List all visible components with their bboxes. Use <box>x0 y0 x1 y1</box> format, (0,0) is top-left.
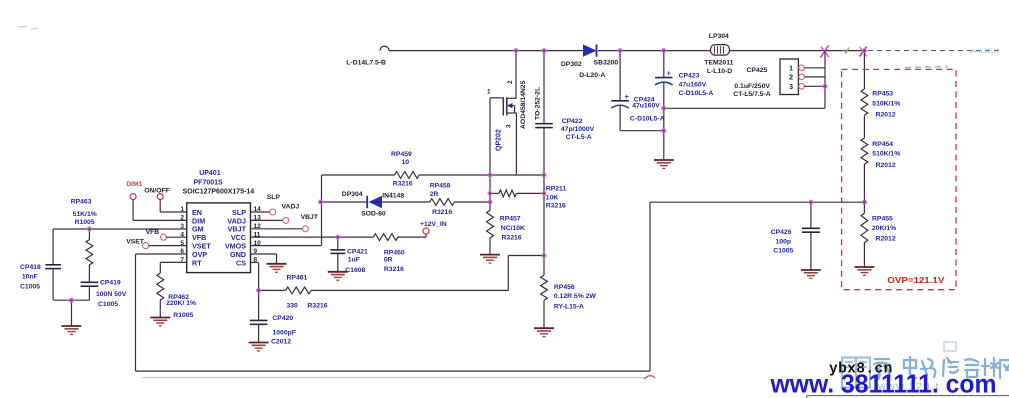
svg-text:510K/1%: 510K/1% <box>872 100 900 107</box>
svg-text:SOD-80: SOD-80 <box>361 211 386 218</box>
svg-text:12V_IN: 12V_IN <box>424 221 447 228</box>
svg-text:AOD458/14N25: AOD458/14N25 <box>520 80 527 129</box>
svg-text:CP420: CP420 <box>272 315 293 322</box>
svg-text:11: 11 <box>254 231 261 238</box>
svg-text:1: 1 <box>789 65 793 72</box>
svg-text:RP457: RP457 <box>500 215 521 222</box>
svg-text:VFB: VFB <box>146 229 160 236</box>
svg-text:C1005: C1005 <box>20 283 40 290</box>
svg-text:RP459: RP459 <box>391 151 412 158</box>
svg-text:+: + <box>667 69 672 78</box>
svg-text:SB3200: SB3200 <box>594 60 619 67</box>
svg-text:1uF: 1uF <box>348 256 360 263</box>
svg-text:RP458: RP458 <box>430 183 451 190</box>
svg-text:VSET: VSET <box>126 239 145 246</box>
svg-text:CP418: CP418 <box>20 264 41 271</box>
svg-text:R3216: R3216 <box>384 266 404 273</box>
svg-text:0.12R 5% 2W: 0.12R 5% 2W <box>554 293 597 300</box>
svg-text:RP454: RP454 <box>872 141 893 148</box>
svg-text:3: 3 <box>789 84 793 91</box>
svg-text:RP453: RP453 <box>872 91 893 98</box>
svg-text:CP422: CP422 <box>562 118 583 125</box>
svg-text:TEM2011: TEM2011 <box>704 60 733 67</box>
svg-text:R3216: R3216 <box>502 235 522 242</box>
svg-text:20K/1%: 20K/1% <box>872 225 896 232</box>
svg-text:R3216: R3216 <box>432 209 452 216</box>
svg-text:C1005: C1005 <box>98 301 118 308</box>
svg-text:CT-L5/7.5-A: CT-L5/7.5-A <box>733 91 770 98</box>
svg-text:QP202: QP202 <box>496 129 503 151</box>
svg-text:100N 50V: 100N 50V <box>96 291 127 298</box>
svg-text:C2012: C2012 <box>271 338 291 345</box>
svg-text:100p: 100p <box>776 239 792 246</box>
svg-text:DIM1: DIM1 <box>126 181 142 188</box>
svg-text:10: 10 <box>402 159 410 166</box>
svg-text:R1005: R1005 <box>75 219 95 226</box>
svg-text:CP423: CP423 <box>679 73 700 80</box>
svg-text:2R: 2R <box>430 191 439 198</box>
svg-text:R3216: R3216 <box>393 181 413 188</box>
svg-text:NC/10K: NC/10K <box>501 225 525 232</box>
svg-text:SOIC127P600X175-14: SOIC127P600X175-14 <box>183 188 255 195</box>
svg-text:3: 3 <box>506 124 513 128</box>
svg-text:RP211: RP211 <box>546 186 567 193</box>
svg-text:ON/OFF: ON/OFF <box>144 187 170 194</box>
svg-text:IN4148: IN4148 <box>382 192 404 199</box>
svg-text:47u160V: 47u160V <box>679 82 707 89</box>
svg-text:510K/1%: 510K/1% <box>872 151 900 158</box>
svg-text:+: + <box>625 92 630 101</box>
svg-text:51K/1%: 51K/1% <box>73 211 97 218</box>
svg-text:RP461: RP461 <box>287 275 308 282</box>
svg-text:L-L10-D: L-L10-D <box>707 68 732 75</box>
svg-text:www.38111: www.38111 <box>969 49 999 55</box>
svg-text:RP463: RP463 <box>71 199 92 206</box>
svg-text:R2012: R2012 <box>876 162 896 169</box>
svg-text:TO-252-2L: TO-252-2L <box>535 87 542 120</box>
svg-text:10nF: 10nF <box>22 274 38 281</box>
svg-text:2: 2 <box>507 80 514 84</box>
svg-text:47p/1000V: 47p/1000V <box>561 126 595 133</box>
svg-text:LP304: LP304 <box>709 33 729 40</box>
svg-text:PF7001S: PF7001S <box>194 179 224 186</box>
svg-text:www. 3811111. com: www. 3811111. com <box>770 369 997 398</box>
svg-text:1: 1 <box>487 89 491 96</box>
svg-text:CP421: CP421 <box>347 248 368 255</box>
svg-text:1000pF: 1000pF <box>273 330 296 337</box>
svg-text:220K/ 1%: 220K/ 1% <box>166 300 196 307</box>
svg-text:C1005: C1005 <box>773 248 793 255</box>
svg-text:L-D14L7.5-B: L-D14L7.5-B <box>346 60 386 67</box>
svg-text:C1608: C1608 <box>345 267 365 274</box>
svg-text:RP456: RP456 <box>554 284 575 291</box>
svg-text:DP302: DP302 <box>561 61 582 68</box>
svg-text:C-D10L5-A: C-D10L5-A <box>630 115 665 122</box>
svg-text:330: 330 <box>287 303 299 310</box>
svg-text:R2012: R2012 <box>876 236 896 243</box>
svg-text:RY-L15-A: RY-L15-A <box>554 303 584 310</box>
svg-text:CP419: CP419 <box>100 279 121 286</box>
svg-text:R3216: R3216 <box>546 203 566 210</box>
svg-text:10: 10 <box>254 240 262 247</box>
svg-text:C-D10L5-A: C-D10L5-A <box>679 90 714 97</box>
svg-text:CT-L5-A: CT-L5-A <box>566 134 592 141</box>
svg-text:2: 2 <box>789 74 793 81</box>
svg-text:10K: 10K <box>546 194 559 201</box>
svg-text:RT: RT <box>192 258 202 267</box>
svg-text:0.1uF/250V: 0.1uF/250V <box>734 83 770 90</box>
svg-text:CS: CS <box>236 258 246 267</box>
svg-text:RP460: RP460 <box>384 249 405 256</box>
svg-text:R2012: R2012 <box>876 112 896 119</box>
svg-text:0R: 0R <box>384 256 393 263</box>
svg-text:DP304: DP304 <box>342 191 363 198</box>
svg-text:D-L20-A: D-L20-A <box>579 72 605 79</box>
svg-text:R1005: R1005 <box>173 312 193 319</box>
svg-text:47u160V: 47u160V <box>632 103 660 110</box>
svg-text:VADJ: VADJ <box>282 203 300 210</box>
svg-text:OVP=121.1V: OVP=121.1V <box>887 276 945 285</box>
svg-text:UP401: UP401 <box>199 170 221 177</box>
svg-text:CP426: CP426 <box>771 229 792 236</box>
svg-text:VBJT: VBJT <box>301 214 319 221</box>
svg-text:SLP: SLP <box>267 194 281 201</box>
svg-text:CP425: CP425 <box>747 67 768 74</box>
svg-text:RP455: RP455 <box>872 215 893 222</box>
svg-text:R3216: R3216 <box>308 303 328 310</box>
